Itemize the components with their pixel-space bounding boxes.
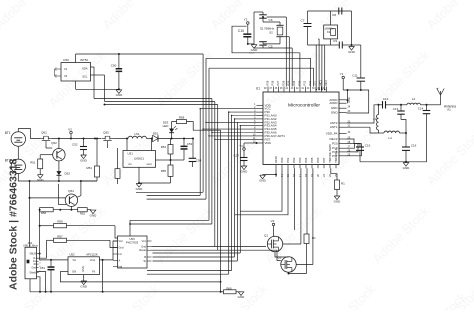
svg-text:V2: V2: [271, 219, 275, 223]
svg-text:ANT1: ANT1: [330, 125, 338, 129]
svg-text:A1: A1: [447, 108, 451, 112]
svg-text:GND: GND: [136, 187, 144, 191]
svg-text:C52: C52: [72, 143, 78, 147]
svg-text:EN: EN: [73, 270, 77, 274]
svg-text:Vcc: Vcc: [119, 239, 124, 243]
svg-text:Q51: Q51: [41, 131, 47, 135]
svg-text:GND: GND: [238, 295, 246, 299]
svg-text:C9: C9: [333, 39, 337, 43]
svg-text:M51: M51: [86, 166, 92, 170]
svg-text:VDD_PA: VDD_PA: [326, 131, 338, 135]
svg-text:AP2112K: AP2112K: [86, 252, 98, 256]
svg-text:Q55: Q55: [103, 131, 109, 135]
svg-text:vin: vin: [128, 162, 132, 166]
svg-text:X1: X1: [64, 67, 68, 71]
svg-text:Flt: Flt: [92, 270, 95, 274]
svg-text:P23: P23: [297, 80, 301, 85]
svg-text:Y3: Y3: [239, 144, 243, 148]
svg-text:D52: D52: [65, 172, 71, 176]
svg-text:P04: P04: [304, 157, 308, 163]
svg-text:TMODE.SWD: TMODE.SWD: [328, 143, 332, 162]
svg-text:U1: U1: [256, 87, 260, 91]
svg-text:U50: U50: [63, 58, 69, 62]
svg-text:C6: C6: [269, 18, 273, 22]
svg-text:X2: X2: [269, 30, 273, 34]
svg-text:Y2: Y2: [244, 18, 248, 22]
svg-text:Adobe Stock | #766463318: Adobe Stock | #766463318: [8, 158, 20, 290]
svg-text:LM2621: LM2621: [134, 157, 145, 161]
svg-text:DEC2: DEC2: [329, 137, 337, 141]
svg-text:X2: X2: [64, 74, 68, 78]
svg-text:GND: GND: [334, 199, 342, 203]
svg-text:C51: C51: [40, 266, 46, 270]
svg-text:GND: GND: [80, 158, 88, 162]
svg-text:BT2: BT2: [5, 158, 11, 162]
svg-text:C12: C12: [383, 97, 389, 101]
svg-text:R56: R56: [41, 211, 47, 215]
svg-text:P26: P26: [281, 80, 285, 85]
svg-text:P29: P29: [265, 80, 269, 85]
svg-text:BT1: BT1: [5, 131, 11, 135]
svg-text:C16: C16: [411, 144, 417, 148]
svg-text:NC1: NC1: [319, 80, 323, 86]
svg-text:VBUS: VBUS: [29, 253, 36, 256]
svg-text:Reset: Reset: [139, 248, 146, 252]
svg-text:C11: C11: [352, 74, 358, 78]
svg-text:C54: C54: [196, 159, 202, 163]
svg-text:Gnd: Gnd: [141, 245, 146, 249]
svg-text:Vcc: Vcc: [142, 239, 147, 243]
svg-text:Q54: Q54: [68, 189, 74, 193]
svg-text:SDA: SDA: [82, 66, 88, 70]
svg-text:GND: GND: [81, 266, 85, 272]
svg-text:LED: LED: [163, 124, 170, 128]
svg-text:GND: GND: [116, 93, 124, 97]
svg-text:P03: P03: [298, 157, 302, 163]
svg-text:VDD: VDD: [265, 141, 272, 145]
svg-text:Gnd: Gnd: [31, 266, 36, 269]
svg-text:GND: GND: [251, 48, 259, 52]
svg-text:TMODCLK: TMODCLK: [334, 148, 338, 163]
svg-text:GND: GND: [274, 155, 278, 163]
svg-text:NC2: NC2: [324, 80, 328, 86]
svg-text:GND: GND: [348, 50, 356, 54]
svg-text:R58: R58: [179, 115, 185, 119]
svg-text:P25: P25: [287, 80, 291, 85]
svg-text:B: B: [144, 255, 146, 259]
svg-text:C14: C14: [418, 107, 424, 111]
svg-text:L2: L2: [412, 97, 416, 101]
svg-text:P07: P07: [322, 157, 326, 163]
svg-text:C10: C10: [238, 29, 244, 33]
svg-text:P20: P20: [332, 142, 338, 146]
svg-text:L4: L4: [388, 136, 392, 140]
svg-text:Microcontroller: Microcontroller: [288, 102, 320, 108]
svg-text:P01: P01: [286, 157, 290, 163]
svg-text:R59: R59: [57, 220, 63, 224]
svg-text:C50: C50: [111, 63, 117, 67]
svg-text:R52: R52: [80, 211, 86, 215]
svg-text:vout: vout: [146, 162, 151, 166]
svg-text:C7: C7: [301, 19, 305, 23]
svg-text:bat: bat: [119, 265, 123, 269]
svg-text:C13: C13: [393, 107, 399, 111]
svg-text:SCL: SCL: [313, 80, 317, 86]
svg-text:P22: P22: [303, 80, 307, 85]
svg-text:R54: R54: [161, 145, 167, 149]
svg-text:PHC7603: PHC7603: [126, 240, 139, 244]
svg-text:C15: C15: [365, 144, 371, 148]
svg-text:GND: GND: [259, 179, 267, 183]
svg-text:Q1: Q1: [264, 234, 268, 238]
svg-text:P24: P24: [292, 80, 296, 85]
svg-text:P21: P21: [308, 80, 312, 85]
svg-text:GND: GND: [331, 106, 339, 110]
svg-text:L51: L51: [134, 132, 139, 136]
svg-text:R1: R1: [312, 236, 316, 240]
svg-text:V2: V2: [68, 127, 72, 131]
svg-text:GND: GND: [90, 214, 98, 218]
svg-text:D51: D51: [153, 132, 159, 136]
svg-text:GND: GND: [241, 169, 249, 173]
svg-text:USB_B_Micro: USB_B_Micro: [23, 245, 39, 248]
svg-text:P06: P06: [316, 157, 320, 163]
svg-text:U51: U51: [128, 152, 134, 156]
svg-text:R1: R1: [341, 182, 345, 186]
svg-text:P02: P02: [292, 157, 296, 163]
svg-text:GND: GND: [80, 284, 88, 288]
svg-text:Q52: Q52: [51, 141, 57, 145]
svg-text:GND: GND: [37, 178, 45, 182]
svg-text:R57: R57: [57, 234, 63, 238]
svg-text:Shield: Shield: [29, 272, 36, 275]
svg-text:U52: U52: [69, 252, 75, 256]
svg-text:GND: GND: [403, 166, 411, 170]
svg-text:R51: R51: [30, 161, 36, 165]
svg-text:SCL: SCL: [82, 74, 88, 78]
svg-text:L3: L3: [373, 117, 377, 121]
svg-text:A: A: [119, 259, 121, 263]
svg-text:P28: P28: [271, 80, 275, 85]
svg-text:C8: C8: [332, 13, 336, 17]
svg-text:P05: P05: [310, 157, 314, 163]
svg-text:P27: P27: [276, 80, 280, 85]
svg-text:Y1: Y1: [340, 72, 344, 76]
svg-text:INT50: INT50: [80, 58, 88, 62]
svg-text:Vin: Vin: [73, 258, 77, 262]
svg-text:P00: P00: [280, 157, 284, 163]
svg-text:GND: GND: [331, 111, 339, 115]
svg-text:Gnd: Gnd: [119, 246, 124, 250]
svg-text:C53: C53: [187, 142, 193, 146]
svg-text:R60: R60: [226, 287, 232, 291]
svg-text:AVDD: AVDD: [329, 101, 338, 105]
svg-text:X1: X1: [327, 30, 331, 34]
svg-text:Vout: Vout: [90, 258, 95, 262]
svg-text:Q2: Q2: [277, 256, 281, 260]
svg-text:R55: R55: [161, 169, 167, 173]
